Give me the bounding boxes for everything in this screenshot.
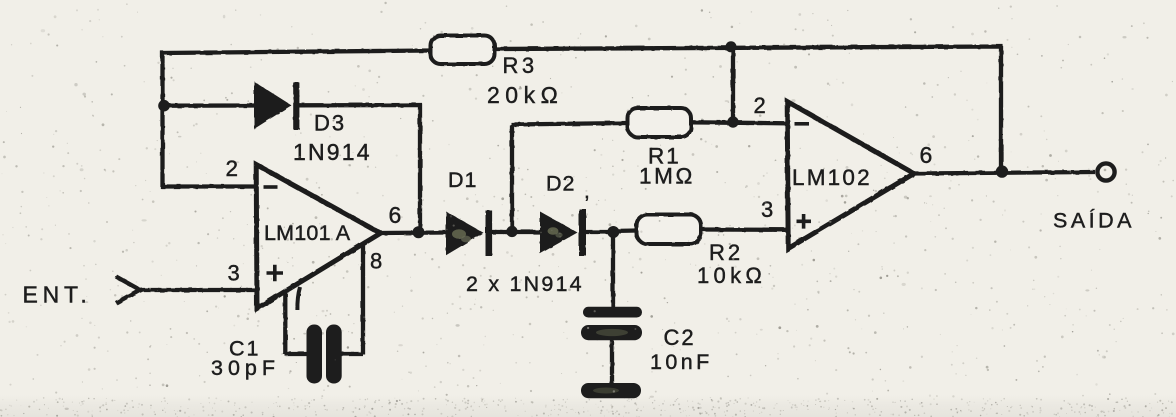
svg-text:SAÍDA: SAÍDA [1053,208,1135,233]
svg-text:30pF: 30pF [211,356,280,380]
svg-text:2: 2 [754,93,766,118]
svg-text:LM101 A: LM101 A [264,221,351,245]
svg-text:C2: C2 [664,325,696,350]
svg-text:10nF: 10nF [650,350,713,374]
svg-text:8: 8 [370,249,382,274]
svg-text:3: 3 [761,197,773,222]
svg-text:ENT.: ENT. [23,282,92,308]
svg-text:20kΩ: 20kΩ [487,82,563,108]
svg-text:LM102: LM102 [792,165,872,190]
svg-text:D2: D2 [546,172,575,196]
svg-text:10kΩ: 10kΩ [697,263,766,288]
svg-text:D3: D3 [314,111,346,136]
svg-text:1MΩ: 1MΩ [639,164,695,189]
svg-text:R2: R2 [709,240,743,265]
svg-text:1N914: 1N914 [293,139,372,165]
svg-text:2 x 1N914: 2 x 1N914 [466,272,584,296]
svg-text:R3: R3 [503,53,538,78]
svg-text:6: 6 [389,202,402,228]
svg-text:6: 6 [920,142,933,168]
svg-text:3: 3 [228,261,240,286]
svg-text:2: 2 [226,156,239,181]
svg-text:D1: D1 [448,168,477,192]
